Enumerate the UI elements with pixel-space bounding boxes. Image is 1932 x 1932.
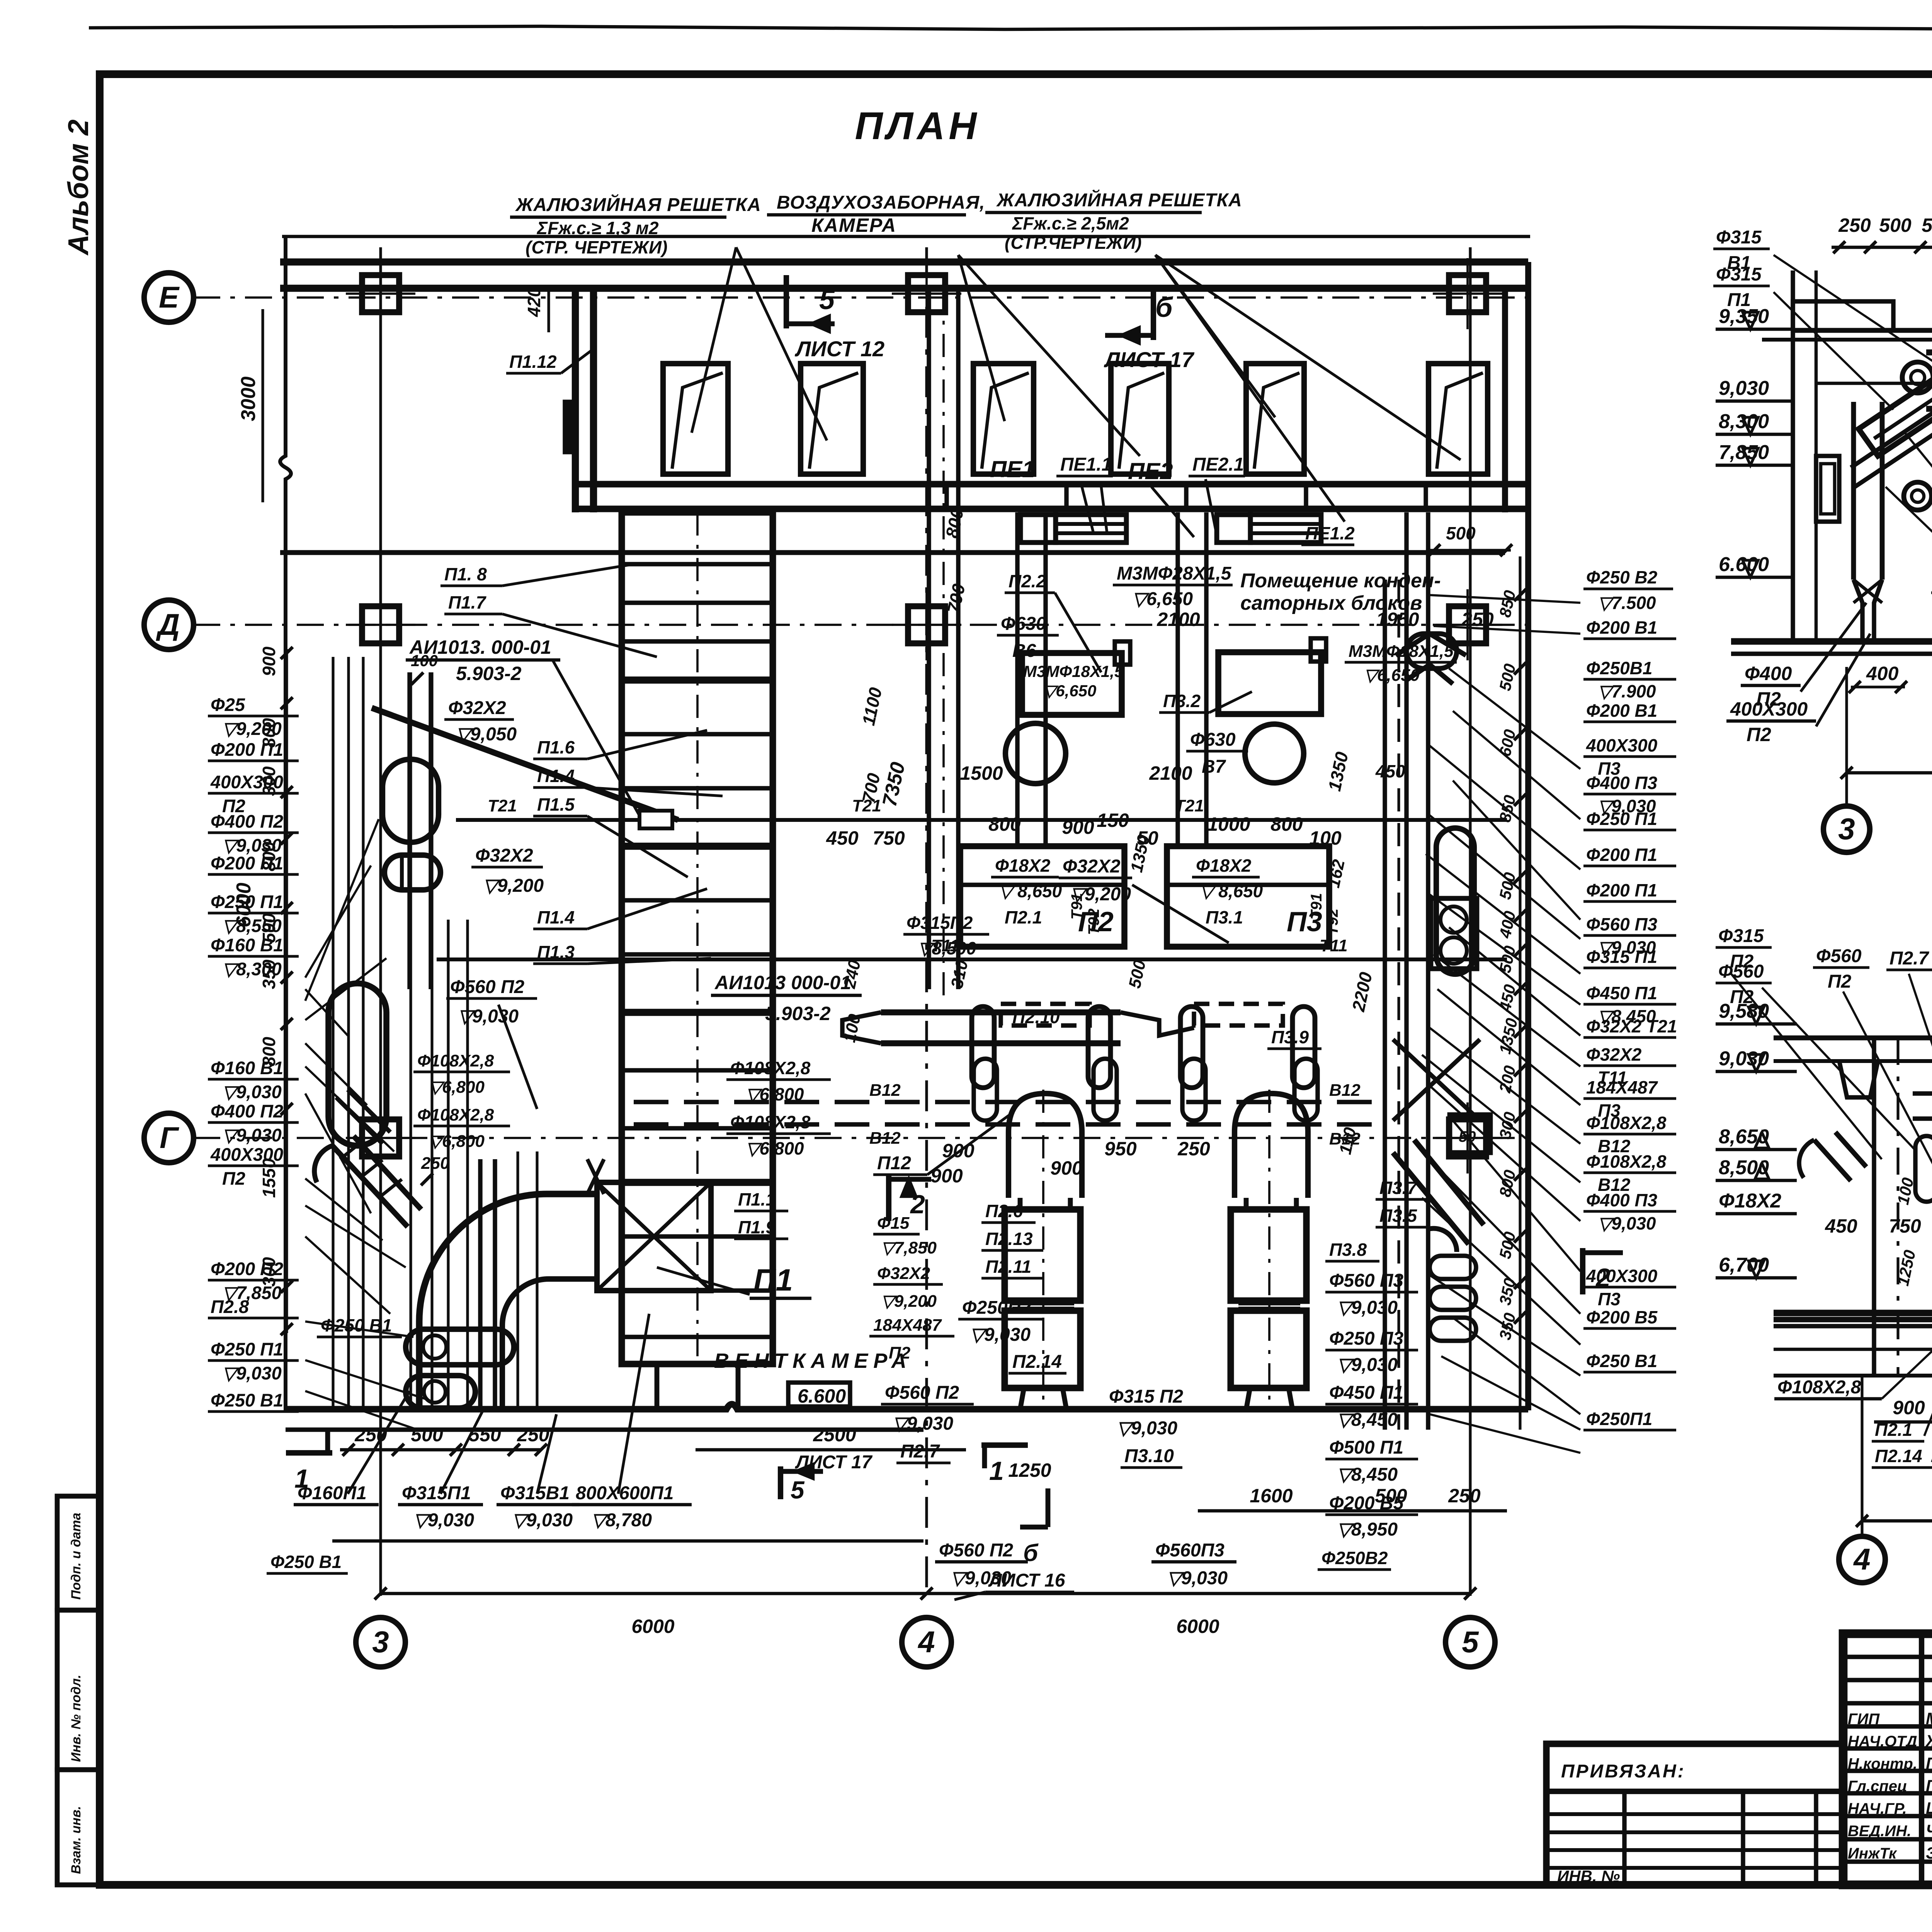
svg-text:ВЕД.ИН.: ВЕД.ИН.: [1848, 1823, 1911, 1840]
svg-text:П2.6: П2.6: [985, 1201, 1023, 1221]
svg-text:800: 800: [1270, 813, 1303, 835]
title block name rows: [1843, 1724, 1932, 1728]
svg-text:П2: П2: [1747, 724, 1771, 745]
svg-text:Ф630: Ф630: [1001, 614, 1046, 634]
level 6600 boxed: [788, 1383, 850, 1406]
svg-text:П3.10: П3.10: [1124, 1446, 1174, 1466]
svg-text:П1.7: П1.7: [448, 592, 486, 612]
svg-text:Ф315: Ф315: [1716, 227, 1762, 248]
fan stack P2 foot: [1020, 1388, 1066, 1410]
fan stack P2 box 1: [1005, 1209, 1080, 1301]
louver stack PE1 low: [1056, 515, 1126, 543]
svg-text:450: 450: [1825, 1215, 1857, 1237]
svg-text:950: 950: [1104, 1138, 1137, 1160]
svg-text:420: 420: [524, 287, 544, 317]
svg-text:Ф315В1: Ф315В1: [500, 1483, 570, 1503]
fan circle V6: [1005, 723, 1066, 784]
svg-text:3: 3: [372, 1625, 389, 1659]
axis 4 vertical line: [925, 247, 928, 1596]
svg-text:Ф315П2: Ф315П2: [906, 913, 973, 933]
svg-text:В12: В12: [1329, 1081, 1361, 1100]
svg-text:▽6,650: ▽6,650: [1132, 589, 1193, 609]
diagonal hatched duct to G axis: [332, 1136, 421, 1227]
svg-text:400Х300: 400Х300: [1586, 735, 1658, 755]
right vertical dim chain: [1519, 556, 1521, 1430]
svg-text:Взам. инв.: Взам. инв.: [69, 1806, 83, 1874]
small box 50: [1450, 1115, 1490, 1153]
svg-text:Ф250 В2: Ф250 В2: [1586, 567, 1658, 587]
svg-text:▽ 8,650: ▽ 8,650: [999, 881, 1062, 901]
supply unit P1 heavy rungs: [622, 677, 773, 684]
right wall verticals: [1502, 288, 1508, 512]
svg-text:Ф400 П3: Ф400 П3: [1586, 773, 1658, 793]
left small capsule horizontal: [384, 855, 440, 890]
svg-text:900: 900: [1893, 1397, 1925, 1418]
svg-text:Ф315 П2: Ф315 П2: [1109, 1386, 1183, 1407]
svg-text:П1.9: П1.9: [738, 1217, 776, 1237]
duct pair feeding P2: [1015, 512, 1019, 846]
sec1 top dim row: [1832, 246, 1932, 249]
svg-text:П2: П2: [889, 1344, 911, 1362]
fan stack P3 foot: [1246, 1388, 1293, 1410]
svg-text:П3.1: П3.1: [1206, 907, 1243, 927]
svg-text:ПРИВЯЗАН:: ПРИВЯЗАН:: [1561, 1761, 1685, 1782]
svg-text:▽9,030: ▽9,030: [1167, 1568, 1228, 1588]
svg-text:ПЛАН: ПЛАН: [855, 104, 980, 148]
sec1 small box on wall: [1816, 456, 1839, 522]
svg-text:Ф18Х2: Ф18Х2: [1196, 855, 1252, 876]
sec1 floor slab: [1731, 638, 1932, 645]
svg-text:П1: П1: [1727, 290, 1751, 310]
sec1 axis circle 3: [1845, 667, 1848, 804]
svg-text:П2.1: П2.1: [1005, 907, 1042, 927]
sec2 duct band between fans: [1913, 1091, 1932, 1095]
big elbow duct bottom left: [419, 1194, 597, 1408]
left vertical dim line: [285, 649, 288, 1333]
svg-text:Т21: Т21: [488, 796, 517, 815]
svg-text:550: 550: [1922, 214, 1932, 236]
sec2 bottom leaders: [1882, 1329, 1932, 1399]
leaders from labels up: [348, 1391, 410, 1494]
building left axis wall line: [280, 236, 291, 1410]
svg-text:П2.1: П2.1: [1875, 1420, 1912, 1440]
top dimension line 420: [282, 235, 1530, 238]
sec1 left equipment heat exchanger diagonal: [1859, 359, 1932, 456]
svg-text:▽6,650: ▽6,650: [1043, 682, 1096, 700]
svg-text:П1. 8: П1. 8: [444, 564, 487, 584]
supply unit P1 centerline: [696, 512, 699, 1364]
svg-text:Ф32Х2: Ф32Х2: [1063, 856, 1121, 877]
fan stack P3 box 2: [1231, 1311, 1306, 1388]
svg-text:1: 1: [989, 1456, 1004, 1486]
svg-text:б: б: [1155, 292, 1173, 323]
svg-text:П1.5: П1.5: [537, 794, 575, 815]
svg-text:▽7.500: ▽7.500: [1598, 593, 1656, 613]
funnel transition: [587, 1159, 604, 1194]
svg-text:Г: Г: [160, 1121, 179, 1155]
building top wall outer line: [280, 259, 1528, 266]
axis circle 4 bottom: [902, 1617, 951, 1667]
sec2 label leader fan: [1731, 974, 1882, 1159]
svg-text:П2.10: П2.10: [1012, 1007, 1060, 1027]
svg-text:▽8,450: ▽8,450: [1337, 1464, 1398, 1485]
svg-text:ПЕ1: ПЕ1: [990, 456, 1035, 482]
sec1 ceiling slab lines: [1793, 328, 1932, 333]
svg-text:П2: П2: [1828, 971, 1852, 992]
svg-text:ЛИСТ 17: ЛИСТ 17: [795, 1452, 873, 1473]
svg-text:Ф32Х2 Т21: Ф32Х2 Т21: [1586, 1016, 1677, 1036]
sec1 left vertical duct: [1851, 402, 1856, 580]
svg-text:▽9,030: ▽9,030: [1117, 1418, 1177, 1439]
svg-text:Ф250 П3: Ф250 П3: [1329, 1328, 1403, 1349]
svg-text:Ф18Х2: Ф18Х2: [1719, 1190, 1781, 1212]
svg-text:750: 750: [872, 827, 905, 849]
svg-text:Ф160П1: Ф160П1: [298, 1483, 367, 1503]
svg-text:Ф315: Ф315: [1716, 264, 1762, 285]
svg-text:Ф250В1: Ф250В1: [1586, 658, 1652, 678]
axis 5 vertical line: [1469, 247, 1471, 1596]
svg-text:П2.2: П2.2: [1009, 571, 1046, 591]
duct band P3.9 dashed: [1194, 1004, 1283, 1026]
section mark 5 bottom: [778, 1466, 783, 1499]
sec1 left diagonal pipes: [1851, 398, 1932, 487]
svg-text:ΣFж.с.≥ 1,3 м2: ΣFж.с.≥ 1,3 м2: [536, 218, 659, 238]
svg-text:1500: 1500: [960, 762, 1003, 784]
svg-text:Ф315: Ф315: [1718, 926, 1764, 946]
svg-text:▽9,030: ▽9,030: [222, 1363, 282, 1383]
supply unit P1 rungs: [622, 562, 773, 566]
left margin stamp box 1: [57, 1496, 100, 1610]
condenser unit 2: [1218, 652, 1321, 714]
svg-text:Ф108Х2,8: Ф108Х2,8: [730, 1112, 811, 1132]
svg-text:500: 500: [1446, 523, 1476, 543]
svg-text:ПЕ1.1: ПЕ1.1: [1060, 454, 1112, 475]
axis circle E: [144, 273, 194, 322]
supply unit P1 ladder body: [622, 512, 773, 1364]
svg-text:Ф560: Ф560: [1816, 946, 1862, 966]
svg-text:П2.7: П2.7: [1889, 948, 1930, 969]
svg-text:В6: В6: [1012, 641, 1036, 661]
tall narrow duct left of P1: [478, 1159, 482, 1408]
condenser unit 1: [1022, 653, 1122, 715]
building top wall inner line: [280, 285, 1528, 292]
svg-text:ВЕНТКАМЕРА: ВЕНТКАМЕРА: [714, 1349, 912, 1372]
section mark b bottom list17: [1046, 1488, 1051, 1527]
title block outer box: [1843, 1634, 1932, 1885]
fan stack P3 box 1: [1231, 1209, 1306, 1301]
right duct X crossing: [1393, 1039, 1480, 1121]
louver label leader fan left: [692, 247, 736, 433]
louver label leader fan right: [1155, 255, 1275, 417]
louver P1.12 dark bar: [565, 402, 573, 452]
svg-text:Ф250 П1: Ф250 П1: [211, 1339, 283, 1359]
svg-text:▽9,030: ▽9,030: [222, 1125, 282, 1145]
dim 6000 right bay: [927, 1592, 1470, 1595]
svg-text:▽9,030: ▽9,030: [222, 1082, 282, 1102]
svg-text:2100: 2100: [1156, 609, 1200, 630]
svg-text:Ф15: Ф15: [877, 1214, 910, 1233]
svg-text:250: 250: [1448, 1485, 1481, 1507]
axis circle 3 bottom: [356, 1617, 405, 1667]
svg-text:1000: 1000: [1207, 813, 1250, 835]
svg-text:Д: Д: [156, 607, 180, 641]
svg-text:250: 250: [1177, 1138, 1210, 1160]
svg-text:450: 450: [1375, 761, 1405, 781]
sec2 left stub 45: [1814, 1132, 1866, 1181]
svg-text:400Х300: 400Х300: [1586, 1266, 1658, 1286]
svg-text:ЖАЛЮЗИЙНАЯ РЕШЕТКА: ЖАЛЮЗИЙНАЯ РЕШЕТКА: [515, 194, 761, 215]
svg-text:Ф32Х2: Ф32Х2: [475, 845, 533, 866]
svg-text:450: 450: [826, 827, 859, 849]
svg-text:▽8,450: ▽8,450: [1337, 1410, 1398, 1430]
svg-text:Ф250 В1: Ф250 В1: [270, 1552, 342, 1572]
section mark 6 list17: [1151, 287, 1156, 340]
svg-text:250: 250: [1838, 214, 1871, 236]
svg-text:Ф560 П2: Ф560 П2: [939, 1540, 1013, 1561]
sec2 floor lines: [1774, 1310, 1932, 1316]
svg-text:900: 900: [259, 646, 279, 676]
svg-text:Ф400 П2: Ф400 П2: [211, 811, 283, 832]
svg-text:Ф560 П2: Ф560 П2: [885, 1383, 959, 1403]
svg-text:Ф32Х2: Ф32Х2: [1586, 1044, 1642, 1065]
svg-text:М3МФ28Х1,5: М3МФ28Х1,5: [1117, 563, 1232, 584]
svg-text:▽7.900: ▽7.900: [1598, 681, 1656, 701]
svg-text:▽6,800: ▽6,800: [746, 1138, 804, 1158]
svg-text:Ф200 В1: Ф200 В1: [1586, 617, 1657, 638]
air chamber bottom wall double: [575, 481, 1528, 488]
svg-text:(СТР. ЧЕРТЕЖИ): (СТР. ЧЕРТЕЖИ): [526, 237, 667, 257]
central shaft verticals: [927, 288, 931, 989]
svg-text:1250: 1250: [1008, 1459, 1051, 1481]
svg-text:800: 800: [259, 842, 279, 871]
svg-text:М3МФ18Х1,5: М3МФ18Х1,5: [1023, 662, 1124, 680]
svg-text:Метрик: Метрик: [1926, 1709, 1932, 1728]
svg-text:Ф560 П3: Ф560 П3: [1329, 1270, 1403, 1291]
svg-text:3000: 3000: [237, 376, 260, 421]
svg-text:Гл.спец: Гл.спец: [1848, 1778, 1907, 1795]
svg-text:750: 750: [1889, 1215, 1921, 1237]
axis circle G: [144, 1113, 194, 1163]
riser pipes band verticals: [332, 657, 334, 1406]
svg-text:ПЕ2.1: ПЕ2.1: [1192, 454, 1244, 475]
vent chamber bottom wall: [286, 1404, 1528, 1409]
svg-text:Ф400 П2: Ф400 П2: [211, 1101, 283, 1121]
svg-text:▽9,030: ▽9,030: [512, 1510, 573, 1531]
svg-text:500: 500: [411, 1424, 443, 1446]
small opening boxes under chamber: [1020, 515, 1056, 543]
fan stack P2 bullet top: [1009, 1094, 1082, 1198]
svg-text:5.903-2: 5.903-2: [765, 1003, 831, 1024]
grid axis D dash line: [193, 624, 1530, 626]
svg-text:П3.8: П3.8: [1329, 1240, 1367, 1260]
svg-text:Ф560 П2: Ф560 П2: [450, 977, 524, 997]
sec2 B12 lines: [1774, 1317, 1932, 1322]
svg-text:184Х487: 184Х487: [1586, 1077, 1658, 1097]
svg-text:▽9,030: ▽9,030: [1598, 1213, 1656, 1233]
sec1 roof step left: [1793, 301, 1893, 330]
svg-text:П2.7: П2.7: [900, 1441, 940, 1462]
svg-text:Т91: Т91: [1308, 893, 1325, 920]
svg-text:Желтоухов: Желтоухов: [1925, 1732, 1932, 1750]
svg-text:Гольц: Гольц: [1926, 1754, 1932, 1773]
axis 3 vertical line: [379, 247, 382, 1596]
pipe T21 horizontal: [456, 818, 1507, 822]
fan stack P2 flange: [1012, 1301, 1074, 1306]
svg-text:Грозовская: Грозовская: [1926, 1777, 1932, 1795]
svg-text:Помещение конден-: Помещение конден-: [1240, 570, 1441, 592]
svg-text:4: 4: [1853, 1542, 1870, 1576]
svg-text:Ф32Х2: Ф32Х2: [877, 1264, 930, 1283]
inner wall band below chamber: [280, 550, 1505, 555]
svg-text:П1: П1: [753, 1263, 793, 1297]
svg-text:Ф450 П1: Ф450 П1: [1329, 1383, 1403, 1403]
pipe T21 valve: [639, 811, 672, 828]
sec1 left equip circles: [1902, 362, 1932, 393]
right duct dashed circles box: [1431, 898, 1477, 969]
svg-text:ГИП: ГИП: [1848, 1711, 1880, 1728]
svg-text:800: 800: [988, 813, 1021, 835]
svg-text:Ф450 П1: Ф450 П1: [1586, 983, 1657, 1003]
pipe T21 diagonal: [372, 708, 678, 820]
svg-text:5: 5: [1462, 1625, 1479, 1659]
three capsules bottom right duct: [1430, 1256, 1476, 1279]
air chamber left wall: [572, 288, 579, 512]
sec1 left duct transition to f400: [1854, 580, 1882, 641]
duct band P2.10: [881, 1009, 1121, 1015]
svg-text:П2.8: П2.8: [211, 1296, 249, 1317]
svg-text:Ф200 В5: Ф200 В5: [1586, 1307, 1658, 1327]
svg-text:6000: 6000: [233, 883, 255, 927]
privyazan table: [1546, 1744, 1843, 1885]
right duct run verticals: [1383, 580, 1387, 1430]
svg-text:П12: П12: [877, 1153, 911, 1173]
leaders PE1 PE2 down: [1082, 487, 1094, 533]
svg-text:П3.2: П3.2: [1163, 691, 1201, 711]
svg-text:1600: 1600: [1250, 1485, 1293, 1507]
svg-text:800: 800: [259, 1037, 279, 1066]
svg-text:Ф250 В1: Ф250 В1: [321, 1315, 392, 1335]
right duct vertical capsule: [1436, 828, 1474, 974]
pipe T11 horizontal: [437, 957, 1507, 961]
svg-text:ΣFж.с.≥ 2,5м2: ΣFж.с.≥ 2,5м2: [1012, 213, 1129, 233]
sec2 bottom dim 6000: [1862, 1519, 1932, 1523]
svg-text:В7: В7: [1202, 757, 1226, 777]
svg-text:Т92: Т92: [1085, 908, 1102, 935]
svg-text:400Х300: 400Х300: [1730, 698, 1808, 720]
duct pair feeding P3: [1175, 512, 1180, 846]
svg-text:Подп. и дата: Подп. и дата: [69, 1513, 83, 1600]
svg-text:800Х600П1: 800Х600П1: [576, 1483, 673, 1503]
section mark 1 down-left: [286, 1450, 332, 1456]
svg-text:900: 900: [1062, 816, 1094, 838]
svg-text:2: 2: [910, 1190, 925, 1219]
svg-text:2100: 2100: [1149, 762, 1192, 784]
svg-text:1550: 1550: [259, 1158, 279, 1198]
svg-text:▽9,200: ▽9,200: [483, 876, 544, 896]
right leaders fan: [1430, 595, 1580, 603]
svg-text:Ф250В2: Ф250В2: [1321, 1548, 1388, 1568]
sec2 ceiling lines: [1774, 1036, 1932, 1041]
svg-text:6000: 6000: [1176, 1616, 1219, 1637]
svg-text:Ф18Х2: Ф18Х2: [995, 855, 1051, 876]
louver label leader fan middle: [958, 255, 1005, 421]
svg-text:Ф250П2: Ф250П2: [962, 1298, 1031, 1318]
svg-text:300: 300: [259, 1257, 279, 1287]
louver grilles row in air intake chamber: [663, 364, 728, 474]
svg-text:184Х487: 184Х487: [873, 1316, 942, 1335]
svg-text:ЛИСТ 12: ЛИСТ 12: [794, 337, 884, 361]
oval connectors above fans: [972, 1007, 994, 1088]
fan stack P3 flange: [1238, 1301, 1300, 1306]
svg-text:350: 350: [259, 959, 279, 989]
columns row G: [362, 1119, 399, 1156]
svg-text:ШляхтЕр: ШляхтЕр: [1926, 1799, 1932, 1818]
svg-text:Заболотн: Заболотн: [1926, 1844, 1932, 1862]
svg-text:▽8,950: ▽8,950: [1337, 1519, 1398, 1540]
svg-text:250: 250: [421, 1154, 450, 1173]
svg-text:Чуркин: Чуркин: [1926, 1821, 1932, 1840]
svg-text:П2.14: П2.14: [1875, 1446, 1922, 1466]
svg-text:▽ 8,650: ▽ 8,650: [1200, 881, 1263, 901]
svg-text:Ф315 П1: Ф315 П1: [1586, 947, 1657, 967]
left duct verticals under D axis: [407, 672, 412, 989]
scan top edge line: [89, 26, 1932, 30]
dim 2500 list17: [696, 1448, 966, 1452]
svg-text:Ф108Х2,8: Ф108Х2,8: [1586, 1151, 1667, 1172]
svg-text:▽9,030: ▽9,030: [893, 1413, 953, 1434]
sec1 big duct 800x600 curve outer: [1926, 352, 1932, 469]
svg-text:5.903-2: 5.903-2: [456, 663, 522, 684]
title block column lines: [1919, 1634, 1924, 1885]
svg-text:500: 500: [1375, 1485, 1407, 1507]
svg-text:▽9,030: ▽9,030: [970, 1325, 1031, 1345]
svg-text:ИнжТк: ИнжТк: [1848, 1845, 1897, 1862]
B12 dashed drain lines: [634, 1100, 1376, 1104]
svg-text:Ф108Х2,8: Ф108Х2,8: [417, 1051, 494, 1070]
svg-text:Инв. № подл.: Инв. № подл.: [69, 1675, 83, 1762]
svg-text:НАЧ.ГР.: НАЧ.ГР.: [1848, 1800, 1907, 1817]
svg-text:6.600: 6.600: [798, 1385, 846, 1407]
svg-text:150: 150: [1097, 810, 1129, 831]
P1 bottom transition: [657, 1364, 738, 1406]
svg-text:500: 500: [259, 913, 279, 943]
svg-text:КАМЕРА: КАМЕРА: [811, 214, 896, 236]
svg-text:5: 5: [819, 284, 835, 315]
capsule pair lower left: [406, 1329, 514, 1365]
svg-text:Ф560 П3: Ф560 П3: [1586, 914, 1658, 934]
fan stack P2 box 2: [1005, 1311, 1080, 1388]
sec2 oval connector left of P2: [1915, 1136, 1932, 1202]
fan stack P3 centerline: [1268, 1090, 1270, 1410]
svg-text:Ф32Х2: Ф32Х2: [448, 698, 506, 718]
axis circle 5 bottom: [1446, 1617, 1495, 1667]
left leaders fan: [305, 989, 348, 1036]
title block header rows: [1843, 1655, 1932, 1659]
svg-text:П2.11: П2.11: [985, 1257, 1031, 1277]
svg-text:▽9,030: ▽9,030: [1337, 1355, 1398, 1375]
svg-text:▽6,800: ▽6,800: [746, 1084, 804, 1104]
long thin line above 6000 dims: [332, 1539, 923, 1543]
svg-text:Ф315П1: Ф315П1: [402, 1483, 471, 1503]
sec2 ceiling hatch columns: [1839, 1061, 1878, 1097]
svg-text:Ф108Х2,8: Ф108Х2,8: [1586, 1113, 1667, 1133]
svg-text:ЖАЛЮЗИЙНАЯ РЕШЕТКА: ЖАЛЮЗИЙНАЯ РЕШЕТКА: [996, 189, 1242, 211]
svg-text:П2.13: П2.13: [985, 1229, 1033, 1249]
svg-text:Ф108Х2,8: Ф108Х2,8: [730, 1058, 811, 1078]
section mark 1 bottom-mid: [981, 1442, 1028, 1448]
svg-text:900: 900: [942, 1140, 975, 1162]
section mark 2 up: [886, 1175, 891, 1221]
